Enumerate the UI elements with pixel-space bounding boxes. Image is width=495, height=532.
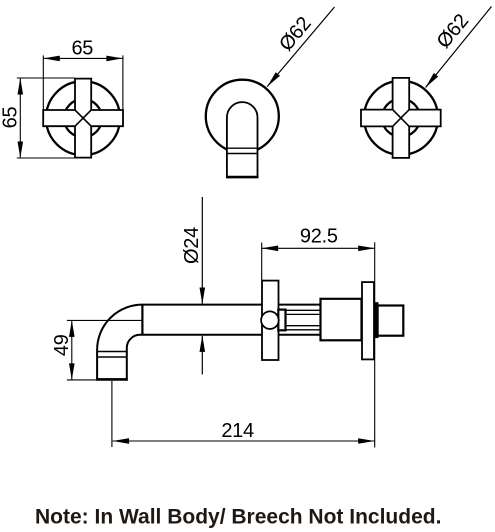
dimension 49 text bbox=[51, 334, 73, 356]
diameter 24 leader line bbox=[200, 197, 206, 304]
dimension 65 horizontal text bbox=[71, 37, 93, 59]
diameter 24 lower arrow bbox=[200, 335, 206, 374]
svg-text:Note: In Wall Body/ Breech Not: Note: In Wall Body/ Breech Not Included. bbox=[35, 506, 441, 529]
wall face extension line bbox=[374, 242, 376, 447]
dimension 214 line bbox=[113, 438, 375, 444]
dimension 92.5 text bbox=[300, 226, 338, 248]
dimension 65 horizontal line bbox=[43, 56, 123, 62]
handle H2 cross arms bbox=[361, 78, 441, 158]
seal ring bbox=[375, 303, 378, 337]
leader line diameter 62 right bbox=[426, 7, 492, 88]
spout tube bottom cap bbox=[96, 378, 128, 381]
dimension 65 horizontal extension lines bbox=[43, 55, 123, 109]
valve stem outer lines bbox=[286, 310, 321, 330]
handle H2 center X bbox=[393, 110, 410, 127]
handle side view bracket bbox=[278, 310, 285, 331]
spout tube side view body bbox=[97, 305, 320, 380]
dimension 92.5 line bbox=[262, 246, 375, 252]
spout neck joint lines bbox=[227, 148, 258, 153]
diameter 62 middle text bbox=[275, 13, 316, 56]
svg-text:92.5: 92.5 bbox=[300, 226, 338, 248]
spout elbow joint line bbox=[141, 305, 143, 335]
svg-text:49: 49 bbox=[51, 334, 73, 356]
spout neck bottom cap bbox=[226, 176, 258, 179]
spout tube joint lines bbox=[97, 352, 127, 358]
svg-text:214: 214 bbox=[221, 420, 254, 442]
handle side view bar bbox=[262, 281, 279, 360]
spout front view circle bbox=[206, 80, 279, 153]
dimension 65 vertical text bbox=[0, 107, 22, 129]
wall flange bbox=[362, 282, 374, 359]
handle H1 cross arms bbox=[43, 79, 123, 158]
handle side view knob circle bbox=[261, 311, 279, 329]
handle H2 inner circle bbox=[382, 99, 420, 137]
handle H1 front view outer circle bbox=[46, 81, 120, 155]
inlet pipe bbox=[378, 306, 404, 336]
dimension 92.5 extension line left bbox=[261, 243, 263, 281]
svg-text:65: 65 bbox=[71, 37, 93, 59]
leader line diameter 62 middle bbox=[267, 7, 334, 87]
diameter 24 text bbox=[181, 227, 203, 264]
svg-text:65: 65 bbox=[0, 107, 22, 129]
note text bbox=[35, 506, 441, 529]
dimension 214 text bbox=[221, 420, 254, 442]
dimension 214 extension line left bbox=[111, 381, 113, 447]
handle H1 center X bbox=[75, 110, 91, 126]
diameter 62 right text bbox=[433, 10, 474, 53]
spout front view neck bbox=[227, 102, 258, 177]
svg-text:Ø24: Ø24 bbox=[181, 227, 203, 264]
handle H2 front view outer circle bbox=[364, 81, 438, 155]
handle H1 inner circle bbox=[64, 99, 102, 137]
dimension 49 line bbox=[69, 320, 75, 380]
dimension 65 vertical extension lines bbox=[17, 78, 75, 158]
valve stem inner lines bbox=[286, 314, 321, 325]
valve body bbox=[321, 299, 362, 341]
dimension 49 extension lines bbox=[67, 320, 142, 380]
dimension 65 vertical line bbox=[18, 78, 24, 158]
